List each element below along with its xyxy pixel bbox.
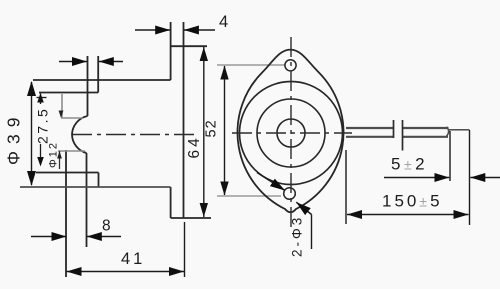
front view horizontal centerline	[232, 132, 352, 134]
svg-text:64: 64	[186, 135, 203, 158]
dim 4 plate thickness	[135, 29, 215, 31]
body front face upper	[87, 56, 89, 116]
top mounting hole	[285, 60, 296, 71]
svg-text:8: 8	[102, 218, 111, 235]
mounting plate left edge upper	[170, 22, 172, 80]
body top edge	[33, 79, 171, 81]
hole leader lower-right	[296, 202, 311, 214]
body front face lower / dim extension	[86, 153, 88, 247]
dim 27.5 line	[37, 94, 47, 160]
dim 8	[31, 236, 121, 238]
svg-text:5±2: 5±2	[391, 155, 428, 174]
bare wire tip	[449, 129, 470, 131]
dim phi39 line	[31, 82, 33, 185]
svg-text:Φ39: Φ39	[4, 111, 24, 165]
svg-text:27.5: 27.5	[35, 107, 51, 144]
step edge upper	[97, 56, 99, 93]
top small dim arrows	[59, 61, 123, 63]
dim 150+-5	[345, 150, 347, 224]
plate bottom edge / 64 extension	[171, 217, 211, 219]
svg-text:41: 41	[121, 250, 145, 268]
bead bottom edge	[36, 172, 99, 174]
front view vertical centerline	[290, 37, 292, 228]
bottom mounting hole	[284, 188, 296, 200]
side view centerline	[72, 134, 194, 136]
wire upper	[346, 128, 449, 137]
svg-text:150±5: 150±5	[382, 192, 443, 211]
dim 41	[184, 222, 186, 277]
plate top edge / 64 extension	[171, 45, 207, 47]
dim 5+-2	[450, 130, 470, 225]
svg-text:4: 4	[219, 13, 228, 31]
dim phi39 arrowheads	[27, 81, 36, 96]
wire break marks	[394, 120, 403, 151]
front view lozenge flange	[238, 50, 344, 213]
hidden bore lines	[58, 94, 85, 151]
bead back face lower	[98, 173, 100, 188]
bead top edge	[39, 92, 98, 94]
svg-text:52: 52	[204, 119, 220, 137]
mounting plate right edge	[183, 22, 185, 218]
extension line x66	[65, 150, 67, 277]
dim 64	[203, 47, 205, 217]
dim 27.5 arrowheads	[37, 93, 44, 103]
hole leader upper-left	[257, 173, 285, 191]
middle circle	[257, 99, 325, 167]
svg-text:Φ12: Φ12	[48, 141, 60, 168]
wire end cap	[447, 127, 449, 136]
phi12 arrowheads	[59, 111, 64, 119]
phi12 dim line lower	[59, 151, 61, 169]
body bottom edge	[20, 186, 171, 188]
body outer circle	[240, 82, 343, 185]
wire lower	[346, 136, 393, 138]
mounting plate left edge lower	[170, 187, 172, 218]
dim 52	[217, 65, 285, 196]
svg-text:2-Φ3: 2-Φ3	[290, 215, 305, 257]
horn flare arc	[72, 116, 88, 153]
inner circle	[277, 119, 305, 147]
